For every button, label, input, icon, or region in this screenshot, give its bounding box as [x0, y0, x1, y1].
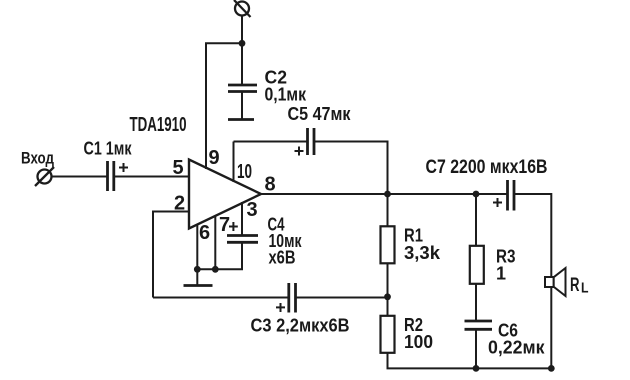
wire C1 to pin 5: [115, 176, 190, 178]
capacitor C2 0,1мк: [228, 68, 307, 105]
svg-text:R: R: [570, 275, 580, 296]
node rail R3: [473, 365, 480, 372]
wire C4 bottom to rail: [197, 242, 242, 269]
capacitor C7 2200мкх16В: [426, 157, 548, 211]
node feedback R1R2: [384, 293, 391, 300]
node output / R3: [473, 191, 480, 198]
wire speaker to rail: [550, 287, 552, 368]
wire supply terminal down: [241, 15, 243, 85]
pin 10 wire: [234, 142, 253, 184]
node supply junction: [239, 40, 246, 47]
svg-text:0,1мк: 0,1мк: [265, 85, 307, 105]
resistor R1 3,3k: [381, 226, 442, 264]
svg-text:С7 2200 мкх16В: С7 2200 мкх16В: [426, 157, 548, 178]
svg-text:L: L: [581, 280, 589, 297]
capacitor C4 10мк х6В: [227, 215, 302, 268]
capacitor C1 1мк: [84, 139, 133, 192]
capacitor C5 47мк: [288, 104, 352, 156]
pin 8 output wire: [261, 174, 507, 196]
node pin7 junction: [212, 266, 219, 273]
bottom rail wire: [387, 367, 552, 369]
svg-text:3,3k: 3,3k: [404, 243, 441, 263]
svg-text:Вход: Вход: [21, 149, 54, 168]
wire C7 to speaker: [515, 194, 552, 277]
pin 6 wire: [197, 222, 210, 269]
wire R1 to R2: [387, 263, 389, 316]
pin 3 wire: [242, 199, 258, 235]
wire C6 to rail: [475, 329, 477, 368]
input terminal X1 (Вход): [21, 149, 54, 187]
wire R2 to bottom rail: [387, 353, 389, 369]
wire input to C1: [52, 176, 108, 178]
svg-text:1: 1: [496, 264, 506, 284]
speaker RL: [545, 268, 589, 297]
svg-text:2: 2: [174, 193, 185, 215]
capacitor C3 2,2мкх6В: [251, 283, 350, 336]
ground (C2): [228, 118, 254, 121]
svg-text:8: 8: [265, 174, 276, 196]
pin 7 wire: [215, 214, 230, 269]
svg-text:3: 3: [247, 199, 258, 221]
node rail speaker: [548, 365, 555, 372]
wire output node to R1: [387, 194, 389, 226]
svg-text:6: 6: [199, 222, 210, 244]
wire R3 node down: [475, 194, 477, 246]
wire C5 to output node: [315, 142, 388, 195]
wire C3 to R1R2 node: [296, 297, 388, 299]
svg-text:С3 2,2мкх6В: С3 2,2мкх6В: [251, 316, 350, 336]
wire R3 to C6: [475, 284, 477, 321]
svg-text:С1 1мк: С1 1мк: [84, 139, 133, 159]
node pin6 junction: [194, 266, 201, 273]
wire pin10 to C5: [234, 141, 308, 143]
svg-text:С5 47мк: С5 47мк: [288, 104, 352, 124]
wire C2 to ground: [241, 92, 243, 120]
svg-text:10: 10: [237, 161, 252, 183]
resistor R2 100: [381, 315, 434, 353]
op-amp U1 TDA1910: [130, 114, 262, 229]
svg-text:7: 7: [219, 214, 230, 236]
wire pin2 vertical to C3: [153, 297, 288, 299]
pin 9 wire: [206, 43, 242, 169]
svg-text:100: 100: [404, 332, 433, 352]
pin 2 wire: [153, 193, 189, 298]
svg-text:9: 9: [209, 147, 220, 169]
ground (pin 6): [184, 269, 213, 285]
svg-text:0,22мк: 0,22мк: [488, 338, 545, 358]
capacitor C6 0,22мк: [465, 321, 546, 358]
supply terminal: [234, 0, 251, 17]
svg-text:5: 5: [173, 157, 184, 179]
svg-text:х6В: х6В: [269, 248, 296, 268]
node output / C5: [384, 191, 391, 198]
resistor R3 1: [470, 246, 516, 284]
svg-text:TDA1910: TDA1910: [130, 114, 187, 136]
